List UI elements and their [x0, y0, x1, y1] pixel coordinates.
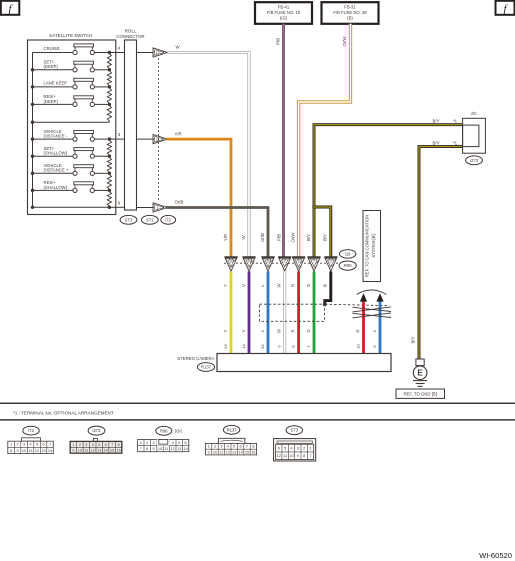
svg-text:16: 16	[116, 449, 120, 453]
connector pinout R137	[223, 425, 239, 434]
svg-text:CONNECTOR: CONNECTOR	[116, 34, 144, 39]
wire W white	[168, 53, 250, 258]
svg-text:3: 3	[220, 445, 222, 449]
svg-text:R: R	[290, 284, 295, 287]
svg-text:3: 3	[153, 441, 155, 445]
svg-text:4: 4	[29, 443, 31, 447]
svg-text:i273: i273	[470, 158, 479, 163]
svg-text:B: B	[323, 284, 328, 287]
svg-text:(SHALLOW): (SHALLOW)	[44, 151, 68, 156]
group1 bottom wire	[33, 121, 110, 123]
svg-text:Y: Y	[223, 284, 228, 287]
svg-text:Or/B: Or/B	[175, 200, 184, 205]
svg-text:8: 8	[146, 447, 148, 451]
svg-text:B/Y: B/Y	[433, 119, 440, 124]
connector pinout i72	[23, 426, 39, 435]
svg-text:9: 9	[153, 447, 155, 451]
svg-text:LANE KEEP: LANE KEEP	[44, 80, 68, 85]
svg-text:2: 2	[79, 443, 81, 447]
svg-text:14: 14	[104, 449, 108, 453]
svg-text:3: 3	[85, 443, 87, 447]
svg-text:15: 15	[110, 449, 114, 453]
wire B shield	[325, 271, 331, 304]
svg-text:13: 13	[232, 450, 236, 454]
svg-text:14: 14	[238, 450, 242, 454]
svg-text:13: 13	[97, 449, 101, 453]
wire B/Y branch 1	[313, 205, 316, 257]
svg-text:12: 12	[156, 51, 160, 55]
wire P/B purple	[282, 24, 285, 257]
svg-text:(B): (B)	[347, 16, 353, 21]
svg-text:5: 5	[98, 443, 100, 447]
wire B/Y branch 2	[314, 207, 331, 257]
svg-text:R137: R137	[227, 427, 238, 432]
ellipse ST3	[120, 215, 137, 224]
svg-text:B/Y: B/Y	[306, 234, 311, 241]
svg-text:12: 12	[91, 449, 95, 453]
wire Y/R orange	[166, 139, 231, 257]
svg-text:i19: i19	[345, 251, 351, 256]
svg-text:9: 9	[16, 449, 18, 453]
svg-text:7: 7	[246, 445, 248, 449]
CAN arrow L	[376, 293, 383, 301]
wire R CAN	[362, 302, 365, 354]
svg-text:14: 14	[241, 344, 246, 349]
svg-text:R137: R137	[201, 365, 212, 370]
svg-text:i72: i72	[28, 428, 34, 433]
svg-text:14: 14	[183, 447, 187, 451]
svg-text:4: 4	[157, 206, 159, 210]
svg-text:(DEEP): (DEEP)	[44, 99, 59, 104]
svg-text:13: 13	[177, 447, 181, 451]
svg-text:3: 3	[23, 443, 25, 447]
wire B/Y ground	[419, 147, 463, 359]
svg-text:15: 15	[245, 450, 249, 454]
svg-text:*1: *1	[453, 119, 458, 124]
svg-text:ST3: ST3	[125, 217, 133, 222]
svg-text:10: 10	[22, 449, 26, 453]
svg-text:6: 6	[42, 443, 44, 447]
pin 3 wire	[109, 138, 124, 140]
svg-text:Y/R: Y/R	[175, 131, 182, 136]
svg-text:2: 2	[16, 443, 18, 447]
CAN reference box	[363, 211, 381, 282]
ellipse ST1	[141, 215, 158, 224]
svg-text:5: 5	[36, 443, 38, 447]
connector pin triangle 4	[278, 256, 291, 258]
svg-text:(DEEP): (DEEP)	[44, 64, 59, 69]
fuse box FB-41	[255, 2, 312, 24]
svg-text:i273: i273	[93, 428, 102, 433]
camera wires	[230, 271, 233, 353]
resistor ladder group1	[107, 53, 111, 70]
svg-text:15: 15	[260, 344, 265, 349]
svg-text:10: 10	[78, 449, 82, 453]
svg-text:10: 10	[158, 447, 162, 451]
ellipse i72 mid	[161, 215, 176, 224]
svg-text:14: 14	[247, 259, 251, 263]
svg-text:8: 8	[252, 445, 254, 449]
svg-text:(IG): (IG)	[280, 16, 288, 21]
svg-text:6: 6	[240, 445, 242, 449]
svg-text:4: 4	[172, 441, 174, 445]
svg-text:STEREO CAMERA: STEREO CAMERA	[177, 356, 214, 361]
svg-text:WI-60520: WI-60520	[479, 551, 512, 560]
group2 bottom wire	[33, 206, 110, 208]
svg-text:V: V	[241, 284, 246, 287]
ellipse i19	[340, 250, 356, 259]
svg-text:5: 5	[233, 445, 235, 449]
twisted pair symbol	[353, 307, 392, 311]
svg-text:Y/R: Y/R	[223, 234, 228, 241]
svg-text:16: 16	[251, 450, 255, 454]
connector triangle T-W pin12	[137, 52, 154, 54]
roll connector box	[125, 40, 137, 210]
svg-text:11: 11	[84, 449, 88, 453]
svg-text:*1: *1	[453, 141, 458, 146]
connector pin triangle 1	[224, 256, 237, 258]
svg-text:(SHALLOW): (SHALLOW)	[44, 185, 68, 190]
svg-text:11: 11	[156, 137, 160, 141]
wire L CAN	[379, 302, 382, 354]
svg-text:DISTANCE -: DISTANCE -	[44, 134, 68, 139]
svg-text:ST3: ST3	[290, 428, 298, 433]
svg-text:1: 1	[208, 445, 210, 449]
svg-text:SYSTEM [B]: SYSTEM [B]	[371, 234, 376, 257]
svg-text:12: 12	[35, 449, 39, 453]
svg-text:ROLL: ROLL	[125, 29, 137, 34]
svg-text:12: 12	[171, 447, 175, 451]
fuse box FB-31	[322, 2, 379, 24]
svg-text:F/B FUSE NO. 19: F/B FUSE NO. 19	[267, 10, 301, 15]
connector pin triangle 2	[242, 256, 255, 258]
dashed row link	[224, 262, 338, 264]
connector triangle T-YR pin11	[137, 138, 154, 140]
svg-text:11: 11	[29, 449, 33, 453]
svg-text:6: 6	[105, 443, 107, 447]
svg-text:FB-41: FB-41	[278, 4, 290, 9]
page marker f top-left	[1, 1, 20, 15]
ellipse R96 mid	[339, 261, 356, 270]
svg-text:B/Y: B/Y	[433, 141, 440, 146]
svg-text:1: 1	[72, 443, 74, 447]
connector triangle T-OrB pin4	[137, 207, 154, 209]
ground symbol E	[413, 366, 427, 380]
dashed connector link	[158, 58, 160, 202]
satellite switch box	[28, 40, 116, 215]
wire Or/B	[166, 208, 268, 258]
CAN arrow R	[360, 293, 367, 301]
connector pin triangle 3	[261, 256, 274, 258]
pin 4 wire	[109, 52, 124, 54]
separator line 2	[0, 419, 515, 421]
shield dashed box	[259, 304, 324, 321]
svg-text:R: R	[290, 329, 295, 332]
connector pinout i273	[88, 426, 105, 435]
svg-text:E: E	[417, 369, 423, 378]
svg-text:1: 1	[140, 441, 142, 445]
svg-text:Y: Y	[223, 329, 228, 332]
connector pin triangle 6	[307, 256, 320, 258]
ref to gnd box	[396, 389, 445, 398]
svg-text:DISTANCE +: DISTANCE +	[44, 168, 69, 173]
svg-text:11: 11	[164, 447, 168, 451]
svg-text:10: 10	[289, 453, 294, 458]
satellite switch rows	[33, 52, 73, 54]
pin 9 wire	[109, 206, 124, 208]
svg-text:11: 11	[219, 450, 223, 454]
svg-text:8: 8	[118, 443, 120, 447]
shield dashed link	[325, 304, 387, 305]
svg-text:12: 12	[277, 453, 282, 458]
svg-text:6: 6	[185, 441, 187, 445]
connector pin triangle 5	[292, 256, 305, 258]
left bus wire	[32, 53, 34, 208]
resistor ladder group2	[107, 139, 111, 156]
svg-text:4: 4	[92, 443, 94, 447]
page marker f top-right	[496, 1, 515, 15]
svg-text:REF. TO GND [B]: REF. TO GND [B]	[403, 392, 437, 397]
svg-text:10: 10	[355, 344, 360, 349]
svg-text:Or/W: Or/W	[342, 36, 347, 47]
svg-text:7: 7	[49, 443, 51, 447]
wire Or/W	[299, 24, 351, 257]
stereo camera box	[217, 354, 391, 372]
svg-text:ST1: ST1	[146, 217, 154, 222]
svg-text:(Gr): (Gr)	[175, 428, 183, 433]
svg-text:R96: R96	[160, 428, 168, 433]
svg-text:P/B: P/B	[277, 234, 282, 241]
svg-text:2: 2	[146, 441, 148, 445]
svg-text:R: R	[355, 329, 360, 332]
connector pinout R96	[156, 426, 172, 435]
svg-text:12: 12	[226, 450, 230, 454]
svg-text:*1 : TERMINAL No. OPTIONAL AR: *1 : TERMINAL No. OPTIONAL ARRANGEMENT	[13, 410, 114, 415]
svg-text:R96: R96	[344, 263, 352, 268]
svg-text:13: 13	[41, 449, 45, 453]
svg-text:5: 5	[178, 441, 180, 445]
arc over CAN arrows	[357, 290, 387, 295]
svg-text:B/Y: B/Y	[323, 234, 328, 241]
svg-text:9: 9	[72, 449, 74, 453]
svg-text:2: 2	[214, 445, 216, 449]
ellipse i273 at J/C	[466, 156, 483, 165]
svg-text:14: 14	[48, 449, 52, 453]
svg-text:7: 7	[111, 443, 113, 447]
svg-text:9: 9	[208, 450, 210, 454]
wire B/Y to J/C upper	[314, 125, 463, 207]
svg-text:16: 16	[229, 259, 233, 263]
svg-text:REF. TO CAN COMMUNICATION: REF. TO CAN COMMUNICATION	[365, 215, 370, 277]
svg-text:P/B: P/B	[276, 38, 281, 45]
svg-text:10: 10	[213, 450, 217, 454]
ellipse R137 at camera	[197, 363, 214, 372]
svg-text:8: 8	[10, 449, 12, 453]
svg-text:SATELLITE SWITCH: SATELLITE SWITCH	[49, 33, 92, 38]
connector pin triangle 7	[324, 256, 337, 258]
svg-text:7: 7	[140, 447, 142, 451]
svg-text:16: 16	[223, 344, 228, 349]
ground terminal square	[416, 359, 424, 366]
svg-text:Or/B: Or/B	[260, 233, 265, 242]
svg-text:F/B FUSE NO. 38: F/B FUSE NO. 38	[333, 10, 367, 15]
svg-text:FB-31: FB-31	[344, 4, 356, 9]
svg-text:Or/W: Or/W	[290, 232, 295, 243]
svg-text:B/Y: B/Y	[411, 336, 416, 343]
svg-text:J/C: J/C	[471, 111, 478, 116]
svg-text:1: 1	[10, 443, 12, 447]
separator line 1	[0, 402, 515, 404]
svg-text:i72: i72	[165, 217, 171, 222]
svg-text:4: 4	[227, 445, 229, 449]
svg-text:15: 15	[266, 259, 270, 263]
svg-text:CRUISE: CRUISE	[44, 46, 60, 51]
svg-text:V: V	[241, 329, 246, 332]
connector pinout ST3	[286, 426, 302, 435]
